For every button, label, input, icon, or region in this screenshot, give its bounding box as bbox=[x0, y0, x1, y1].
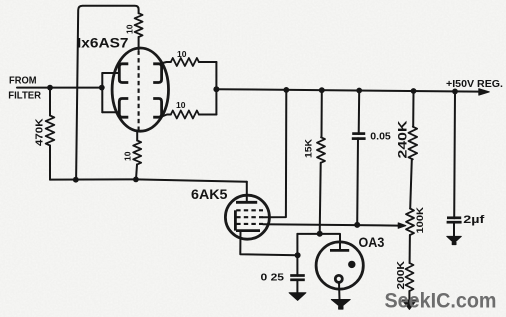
wire 6AK5 plate lead to feedback bus bbox=[246, 182, 248, 202]
anode bar (OA3) bbox=[330, 249, 349, 252]
grid (dashed) of 6AS7 bbox=[138, 51, 140, 131]
wire 200K lower lead bbox=[408, 291, 410, 300]
wire OA3 anode run bbox=[297, 234, 340, 250]
wire 100K to 200K bbox=[409, 235, 411, 263]
wire cathode rail bbox=[101, 73, 103, 112]
wire lower plate resistor to bus bbox=[199, 114, 217, 116]
node 15K / anode wire junction bbox=[317, 231, 323, 237]
wire 6AK5 cathode lead bbox=[240, 231, 297, 256]
svg-text:+I50V REG.: +I50V REG. bbox=[446, 78, 503, 90]
wire 0.25 lower lead bbox=[296, 280, 298, 293]
wire 0.25 upper lead bbox=[296, 255, 298, 276]
svg-text:100K: 100K bbox=[415, 207, 426, 234]
svg-text:OA3: OA3 bbox=[359, 234, 385, 250]
resistor 10 (upper grid) bbox=[135, 13, 143, 37]
node rail/screen branch bbox=[283, 87, 289, 93]
svg-text:10: 10 bbox=[125, 24, 135, 34]
grid row 1 (6AK5) bbox=[236, 209, 263, 211]
tube OA3 envelope bbox=[316, 242, 363, 289]
grid row 3 (6AK5) bbox=[236, 223, 263, 225]
grid left bar (6AK5) bbox=[234, 210, 237, 230]
svg-text:0 25: 0 25 bbox=[261, 272, 285, 283]
node cathode / 0.25 junction bbox=[295, 252, 301, 258]
wire 240K upper lead bbox=[412, 91, 414, 127]
arrow +150V output bbox=[479, 89, 490, 95]
capacitor 0.25 bbox=[290, 274, 305, 277]
node 0.05 / grid wire bbox=[354, 222, 360, 228]
grid row 2 screen (6AK5) bbox=[236, 216, 263, 218]
wire riser cathode to OA3 anode wire bbox=[296, 234, 298, 255]
cathode dot (OA3) bbox=[348, 261, 355, 268]
plate upper (6AS7) bbox=[153, 64, 161, 83]
resistor 10 (upper plate) bbox=[171, 58, 199, 66]
node plate bus / rail bbox=[213, 86, 219, 92]
wire plate output bus bbox=[215, 62, 217, 115]
wire upper grid lead bbox=[138, 37, 140, 50]
wire top-left loop riser and top run bbox=[76, 6, 139, 180]
tube 1x6AS7 envelope bbox=[112, 48, 168, 131]
wire upper plate resistor to bus bbox=[199, 61, 217, 63]
svg-text:10: 10 bbox=[123, 151, 133, 161]
resistor 470K bbox=[46, 116, 55, 146]
svg-text:FROM: FROM bbox=[9, 75, 37, 86]
starter electrode circle (OA3) bbox=[335, 275, 342, 282]
arrow potentiometer wiper bbox=[398, 223, 406, 228]
plate bar (6AK5) bbox=[236, 201, 257, 204]
svg-text:6AK5: 6AK5 bbox=[191, 186, 228, 202]
tube 6AK5 envelope bbox=[225, 195, 269, 239]
wire upper plate lead bbox=[161, 62, 171, 63]
node input junction bbox=[47, 85, 53, 91]
capacitor 0.05 bbox=[352, 132, 365, 135]
wire lower grid resistor to feedback bus bbox=[136, 164, 137, 179]
resistor 240K bbox=[409, 127, 418, 160]
svg-text:240K: 240K bbox=[398, 120, 410, 159]
wire 2uf lower lead bbox=[453, 222, 455, 236]
svg-text:10: 10 bbox=[177, 49, 187, 59]
cathode lower (6AS7) bbox=[119, 99, 128, 118]
cathode upper (6AS7) bbox=[119, 64, 128, 83]
svg-text:0.05: 0.05 bbox=[370, 132, 391, 143]
node rail/15K branch bbox=[319, 87, 325, 93]
wire lower plate lead bbox=[161, 115, 171, 117]
node feedback / left riser junction bbox=[73, 177, 79, 183]
svg-text:200K: 200K bbox=[396, 260, 407, 289]
ground (divider) bbox=[402, 300, 416, 310]
resistor 200K bbox=[406, 263, 414, 291]
resistor 10 (lower grid) bbox=[133, 141, 141, 165]
wire 2uf upper lead bbox=[453, 91, 456, 218]
ground (0.25) bbox=[289, 293, 306, 301]
wire 240K to 100K bbox=[410, 159, 412, 208]
resistor 10 (lower plate) bbox=[171, 111, 199, 119]
svg-text:10: 10 bbox=[176, 100, 186, 110]
wire cathode stub lower bbox=[102, 111, 119, 113]
wire 470K lower lead bbox=[49, 146, 51, 180]
plate lower (6AS7) bbox=[153, 99, 161, 118]
node rail/0.05 branch bbox=[356, 88, 362, 94]
ground (OA3) bbox=[331, 300, 350, 308]
wire 15K branch bbox=[321, 90, 323, 137]
wire control grid wire to divider bbox=[263, 224, 399, 225]
node feedback / lower grid resistor junction bbox=[133, 177, 139, 183]
svg-text:2µf: 2µf bbox=[463, 214, 484, 226]
wire input from filter bbox=[17, 87, 102, 89]
resistor 100K (potentiometer) bbox=[406, 209, 414, 236]
node rail/2uf branch bbox=[452, 89, 458, 95]
wire 15K lower lead bbox=[320, 163, 321, 234]
resistor 15K bbox=[317, 137, 325, 162]
node rail/240K branch bbox=[411, 88, 417, 94]
svg-text:15K: 15K bbox=[303, 138, 313, 158]
node cathode rail / input bbox=[99, 85, 105, 91]
svg-text:Ix6AS7: Ix6AS7 bbox=[77, 35, 129, 51]
wire 470K upper lead bbox=[49, 88, 51, 116]
wire 0.05 lower lead bbox=[356, 138, 359, 225]
svg-text:SeekIC.com: SeekIC.com bbox=[385, 289, 497, 313]
wire cathode stub upper bbox=[102, 72, 119, 74]
ground (2uf) bbox=[447, 236, 462, 243]
svg-text:FILTER: FILTER bbox=[8, 91, 42, 102]
wire screen lead to rail bbox=[263, 90, 286, 217]
cathode bar (6AK5) bbox=[236, 229, 260, 232]
wire OA3 bottom lead bbox=[338, 282, 341, 299]
wire 0.05 upper lead bbox=[358, 91, 361, 135]
wire lower grid lead bbox=[136, 131, 138, 141]
wire grid feedback bus (bottom) bbox=[50, 179, 247, 181]
wire +150V rail bbox=[216, 89, 479, 91]
svg-text:470K: 470K bbox=[35, 118, 46, 146]
capacitor 2uf bbox=[447, 216, 461, 219]
